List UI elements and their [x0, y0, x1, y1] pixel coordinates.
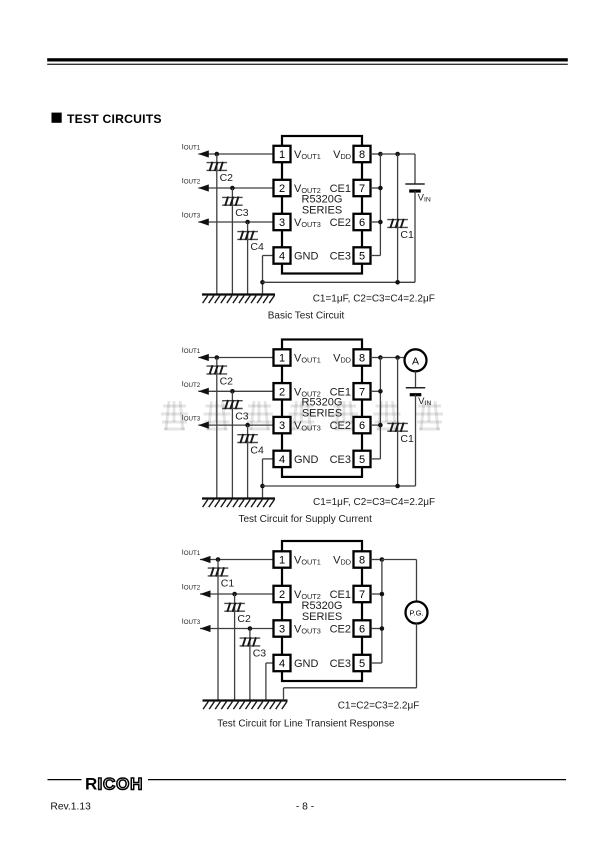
- section heading TEST CIRCUITS: [52, 113, 62, 123]
- junction node GND/return: [260, 484, 265, 489]
- junction node Iout3/C4: [245, 423, 250, 428]
- junction node Vdd/CE: [378, 355, 383, 360]
- wire Iout3 output wire: [198, 424, 273, 426]
- capacitor C1 plates: [387, 423, 408, 431]
- IC U3 pin 3 box: [274, 620, 291, 636]
- wire C2 to ground: [216, 358, 218, 499]
- wire C4 to ground: [247, 222, 249, 295]
- svg-text:IOUT3: IOUT3: [182, 616, 201, 626]
- svg-text:CE3: CE3: [330, 251, 351, 263]
- wire GND down to rail: [262, 459, 264, 499]
- footer rule: [48, 779, 82, 781]
- svg-text:3: 3: [279, 420, 285, 432]
- svg-text:C1: C1: [400, 229, 414, 241]
- junction node Vdd/C1: [395, 152, 400, 157]
- svg-text:P.G.: P.G.: [409, 608, 423, 617]
- IC U3 R5320G body: [282, 541, 362, 681]
- capacitor C4 plates: [237, 435, 258, 443]
- IC U1 pin 2 box: [274, 180, 291, 196]
- capacitor C1 plates: [387, 220, 408, 228]
- junction node CE2: [378, 423, 383, 428]
- wire CE1 pin 7 stub: [371, 390, 381, 392]
- wire GND pin stub: [263, 255, 274, 257]
- wire C1 to ground: [217, 560, 219, 701]
- svg-text:VDD: VDD: [333, 149, 351, 161]
- svg-text:VOUT3: VOUT3: [294, 217, 321, 229]
- svg-text:8: 8: [359, 149, 365, 161]
- battery Vin-1 positive plate: [405, 183, 424, 185]
- svg-text:C1: C1: [221, 578, 235, 590]
- svg-text:7: 7: [359, 183, 365, 195]
- output arrow Iout2: [198, 184, 209, 191]
- ammeter A: [405, 349, 427, 371]
- svg-text:5: 5: [359, 658, 365, 670]
- IC U3 pin 7 box: [354, 586, 371, 602]
- wire Iout2 output wire: [198, 187, 273, 189]
- capacitor C3 hatch: [243, 637, 256, 646]
- wire CE1 pin 7 stub: [371, 593, 382, 595]
- wire ground return bottom: [263, 281, 416, 283]
- svg-text:IOUT1: IOUT1: [182, 547, 201, 557]
- wire CE tie vertical: [381, 560, 383, 664]
- wire CE tie vertical: [379, 358, 381, 459]
- svg-text:SERIES: SERIES: [302, 205, 342, 217]
- IC U2 pin 5 box: [354, 451, 371, 467]
- wire Iout3 output wire: [198, 221, 273, 223]
- svg-text:IOUT2: IOUT2: [182, 176, 201, 186]
- capacitor C3 hatch: [225, 197, 238, 206]
- svg-text:C4: C4: [250, 241, 264, 253]
- battery Vin-2 positive plate: [406, 387, 425, 389]
- svg-text:CE2: CE2: [330, 217, 351, 229]
- junction node C1/return: [395, 280, 400, 285]
- svg-text:C1: C1: [400, 433, 414, 445]
- svg-text:VOUT3: VOUT3: [294, 624, 321, 636]
- svg-text:C3: C3: [235, 207, 249, 219]
- svg-text:Test Circuit for Supply Curren: Test Circuit for Supply Current: [239, 514, 373, 525]
- capacitor C3 plates: [222, 197, 243, 205]
- svg-text:7: 7: [359, 386, 365, 398]
- junction node CE1: [380, 592, 385, 597]
- wire Iout3 output wire: [200, 628, 274, 630]
- junction node CE2: [378, 220, 383, 225]
- capacitor C2 plates: [207, 366, 228, 374]
- svg-text:GND: GND: [294, 454, 319, 466]
- capacitor C2 hatch: [210, 162, 223, 171]
- junction node Iout2/C3: [230, 389, 235, 394]
- svg-text:C1=C2=C3=2.2μF: C1=C2=C3=2.2μF: [338, 701, 420, 712]
- svg-text:Test Circuit for Line Transien: Test Circuit for Line Transient Response: [217, 719, 395, 730]
- svg-text:C3: C3: [253, 648, 267, 660]
- wire Vdd pin 8 stub: [371, 357, 381, 359]
- ground rail circuit 1: [202, 293, 275, 295]
- output arrow Iout3: [200, 625, 211, 632]
- ground rail circuit 3 hatching: [203, 702, 287, 710]
- svg-text:IOUT1: IOUT1: [182, 142, 201, 152]
- wire Vdd pin 8 stub: [371, 559, 382, 561]
- capacitor C2 hatch: [210, 365, 223, 374]
- IC U2 pin 4 box: [274, 451, 291, 467]
- wire Vdd to ammeter: [380, 357, 404, 359]
- junction node Vdd/C1 2: [395, 355, 400, 360]
- svg-text:C2: C2: [220, 376, 234, 388]
- svg-text:C3: C3: [235, 410, 249, 422]
- battery Vin-2 negative plate: [410, 393, 422, 396]
- svg-text:TEST CIRCUITS: TEST CIRCUITS: [67, 112, 162, 126]
- svg-text:2: 2: [279, 386, 285, 398]
- junction node Iout2/C3: [230, 186, 235, 191]
- wire C2 to ground: [234, 594, 236, 701]
- IC U3 pin 2 box: [274, 586, 291, 602]
- wire CE tie vertical: [379, 154, 381, 256]
- svg-text:C2: C2: [220, 172, 234, 184]
- wire GND pin stub: [266, 662, 274, 664]
- svg-text:6: 6: [359, 420, 365, 432]
- wire C1 branch 2: [397, 358, 399, 487]
- capacitor C1 hatch: [390, 423, 403, 432]
- wire battery bottom lead 2: [415, 395, 417, 486]
- wire Iout2 output wire: [198, 390, 273, 392]
- svg-text:4: 4: [279, 658, 285, 670]
- junction node CE2: [380, 626, 385, 631]
- IC U2 pin 2 box: [274, 383, 291, 399]
- svg-text:VOUT1: VOUT1: [294, 353, 321, 365]
- svg-text:6: 6: [359, 624, 365, 636]
- svg-text:8: 8: [359, 353, 365, 365]
- IC U3 pin 5 box: [354, 655, 371, 671]
- wire C2 to ground: [216, 154, 218, 295]
- IC U2 pin 1 box: [274, 349, 291, 365]
- junction node Iout1/C1: [216, 557, 221, 562]
- wire PG top lead: [416, 560, 418, 602]
- wire CE2 pin 6 stub: [371, 424, 381, 426]
- junction node Iout3/C3: [248, 626, 253, 631]
- IC U2 pin 6 box: [354, 417, 371, 433]
- output arrow Iout1: [200, 556, 211, 563]
- capacitor C1 hatch: [211, 567, 224, 576]
- svg-text:VOUT1: VOUT1: [294, 555, 321, 567]
- junction node Iout1/C2: [215, 152, 220, 157]
- capacitor C4 hatch: [240, 434, 253, 443]
- svg-text:5: 5: [359, 251, 365, 263]
- IC U2 pin 8 box: [354, 349, 371, 365]
- junction node GND/return: [260, 280, 265, 285]
- svg-text:GND: GND: [294, 658, 319, 670]
- IC U1 pin 3 box: [274, 214, 291, 230]
- ground rail circuit 1 hatching: [203, 296, 275, 304]
- svg-text:SERIES: SERIES: [302, 408, 342, 420]
- svg-text:VIN: VIN: [418, 396, 431, 407]
- svg-text:A: A: [412, 355, 419, 367]
- watermark (faint CJK text): [161, 401, 443, 430]
- svg-text:C1=1μF, C2=C3=C4=2.2μF: C1=1μF, C2=C3=C4=2.2μF: [313, 294, 435, 305]
- junction node CE1: [378, 389, 383, 394]
- wire C1 branch: [397, 154, 399, 282]
- svg-text:IOUT2: IOUT2: [182, 379, 201, 389]
- IC U2 pin 7 box: [354, 383, 371, 399]
- svg-text:ICOH: ICOH: [98, 775, 144, 794]
- svg-text:GND: GND: [294, 251, 319, 263]
- ground rail circuit 2 hatching: [203, 500, 275, 508]
- junction node CE1: [378, 186, 383, 191]
- IC U2 pin 3 box: [274, 417, 291, 433]
- svg-text:6: 6: [359, 217, 365, 229]
- IC U3 pin 1 box: [274, 551, 291, 567]
- svg-text:2: 2: [279, 183, 285, 195]
- wire GND down to rail: [262, 256, 264, 295]
- svg-text:IOUT1: IOUT1: [182, 345, 201, 355]
- svg-text:1: 1: [279, 353, 285, 365]
- wire C4 to ground: [247, 425, 249, 498]
- svg-text:2: 2: [279, 589, 285, 601]
- output arrow Iout3: [198, 422, 209, 429]
- svg-text:VOUT1: VOUT1: [294, 149, 321, 161]
- svg-text:R: R: [85, 775, 97, 794]
- svg-text:- 8 -: - 8 -: [296, 802, 314, 813]
- header double rule thin: [47, 64, 568, 65]
- wire Iout2 output wire: [200, 593, 274, 595]
- wire GND pin stub: [263, 458, 274, 460]
- junction node Iout3/C4: [245, 220, 250, 225]
- IC U1 pin 6 box: [354, 214, 371, 230]
- IC U2 R5320G body: [282, 340, 362, 477]
- svg-text:Rev.1.13: Rev.1.13: [50, 802, 91, 813]
- capacitor C3 hatch: [225, 400, 238, 409]
- svg-text:IOUT2: IOUT2: [182, 582, 201, 592]
- junction node Vdd/CE: [380, 557, 385, 562]
- svg-text:7: 7: [359, 589, 365, 601]
- wire ammeter to battery: [415, 371, 417, 387]
- ground rail circuit 2: [202, 497, 275, 499]
- capacitor C3 plates: [222, 401, 243, 409]
- svg-text:C2: C2: [237, 613, 251, 625]
- wire ground return bottom 2: [263, 485, 416, 487]
- svg-text:8: 8: [359, 555, 365, 567]
- IC U1 pin 7 box: [354, 180, 371, 196]
- svg-text:4: 4: [279, 251, 285, 263]
- capacitor C2 plates: [224, 603, 245, 611]
- junction node C1/return 2: [395, 484, 400, 489]
- svg-text:SERIES: SERIES: [302, 611, 342, 623]
- svg-text:3: 3: [279, 217, 285, 229]
- wire Iout1 output wire: [198, 153, 273, 155]
- wire Vdd pin 8 stub: [371, 153, 381, 155]
- capacitor C4 plates: [237, 232, 258, 240]
- wire CE2 pin 6 stub: [371, 628, 382, 630]
- svg-text:CE3: CE3: [330, 454, 351, 466]
- svg-text:CE3: CE3: [330, 658, 351, 670]
- svg-text:VIN: VIN: [418, 193, 431, 204]
- svg-text:Basic Test Circuit: Basic Test Circuit: [268, 311, 345, 322]
- wire C3 to ground: [231, 188, 233, 295]
- capacitor C2 plates: [207, 163, 228, 171]
- wire CE2 pin 6 stub: [371, 221, 381, 223]
- IC U1 pin 4 box: [274, 247, 291, 263]
- wire Iout1 output wire: [198, 357, 273, 359]
- wire CE3 pin 5 stub: [371, 662, 382, 664]
- wire Iout1 output wire: [200, 559, 274, 561]
- svg-text:4: 4: [279, 454, 285, 466]
- svg-text:3: 3: [279, 624, 285, 636]
- IC U1 R5320G body: [282, 136, 362, 274]
- IC U1 pin 8 box: [354, 146, 371, 162]
- pulse generator P.G.: [406, 602, 428, 624]
- wire C3 to ground: [231, 391, 233, 498]
- svg-text:VDD: VDD: [333, 555, 351, 567]
- wire PG bottom lead: [416, 623, 418, 688]
- capacitor C4 hatch: [240, 231, 253, 240]
- svg-text:C4: C4: [250, 444, 264, 456]
- header double rule thick: [47, 58, 568, 61]
- capacitor C1 plates: [208, 568, 229, 576]
- wire battery bottom lead: [414, 191, 416, 282]
- ground rail circuit 3: [203, 699, 288, 701]
- wire GND down to rail: [265, 663, 267, 701]
- capacitor C3 plates: [240, 638, 261, 646]
- wire ground return bottom 3: [284, 687, 417, 689]
- IC U3 pin 6 box: [354, 620, 371, 636]
- IC U3 pin 4 box: [274, 655, 291, 671]
- junction node Vdd/CE: [378, 152, 383, 157]
- svg-text:CE2: CE2: [330, 624, 351, 636]
- wire battery top lead: [414, 154, 416, 184]
- svg-text:5: 5: [359, 454, 365, 466]
- wire CE1 pin 7 stub: [371, 187, 381, 189]
- IC U1 pin 5 box: [354, 247, 371, 263]
- svg-text:CE2: CE2: [330, 420, 351, 432]
- svg-text:C1=1μF, C2=C3=C4=2.2μF: C1=1μF, C2=C3=C4=2.2μF: [313, 497, 435, 508]
- wire Vdd to pulse generator: [382, 559, 417, 561]
- svg-text:1: 1: [279, 149, 285, 161]
- junction node Iout2/C2: [232, 592, 237, 597]
- output arrow Iout3: [198, 218, 209, 225]
- wire Vdd to battery: [380, 153, 415, 155]
- output arrow Iout1: [198, 354, 209, 361]
- svg-text:IOUT3: IOUT3: [182, 210, 201, 220]
- IC U3 pin 8 box: [354, 551, 371, 567]
- junction node Iout1/C2: [215, 355, 220, 360]
- output arrow Iout2: [200, 590, 211, 597]
- svg-text:1: 1: [279, 555, 285, 567]
- wire C3 to ground: [249, 629, 251, 701]
- battery Vin-1 negative plate: [409, 189, 421, 192]
- output arrow Iout2: [198, 388, 209, 395]
- wire CE3 pin 5 stub: [371, 458, 381, 460]
- capacitor C2 hatch: [227, 603, 240, 612]
- wire CE3 pin 5 stub: [371, 255, 381, 257]
- svg-text:VDD: VDD: [333, 353, 351, 365]
- capacitor C1 hatch: [390, 219, 403, 228]
- IC U1 pin 1 box: [274, 146, 291, 162]
- output arrow Iout1: [198, 150, 209, 157]
- wire supply return drop 3: [283, 688, 285, 701]
